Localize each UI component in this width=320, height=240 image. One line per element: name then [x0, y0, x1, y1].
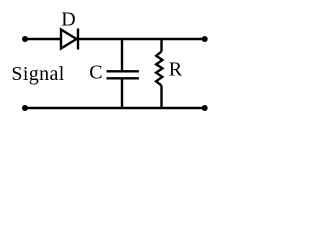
svg-text:C: C [89, 61, 102, 83]
svg-text:D: D [61, 8, 75, 30]
svg-text:R: R [169, 58, 183, 80]
svg-text:Signal: Signal [11, 63, 64, 85]
